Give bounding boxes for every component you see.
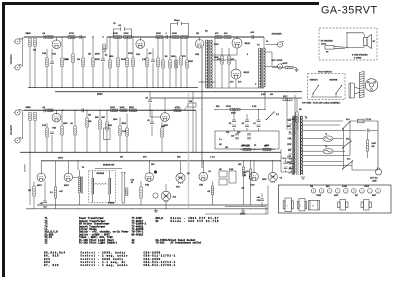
wire (67, 161, 69, 173)
svg-text:.02: .02 (118, 25, 122, 27)
wire bus 250V (55, 91, 302, 93)
node (61, 36, 62, 37)
wire (33, 196, 35, 209)
node (93, 87, 94, 88)
wire (180, 161, 182, 173)
wire T1 tap (289, 123, 293, 125)
wire (102, 62, 104, 88)
svg-text:250K: 250K (129, 107, 134, 109)
svg-text:T5: T5 (254, 145, 256, 147)
svg-text:470: 470 (231, 58, 234, 61)
svg-text:.02: .02 (70, 123, 74, 125)
wire supply (303, 145, 344, 147)
resistor R58 470 (228, 56, 230, 64)
wire (311, 96, 342, 98)
wire supply (303, 124, 341, 126)
svg-text:SPRING: SPRING (108, 203, 115, 205)
wire T1 tap (289, 133, 293, 135)
svg-text:42: 42 (132, 242, 135, 245)
tube V2B phase inverter (195, 40, 204, 49)
wire (221, 64, 223, 88)
wire transformer feed (214, 37, 216, 88)
resistor R10 100K (114, 36, 122, 39)
node (86, 110, 87, 111)
svg-text:1M: 1M (225, 147, 228, 149)
wire (333, 138, 343, 140)
transformer T4 core (81, 177, 82, 194)
fuse F1 (358, 119, 365, 123)
resistor R52 10K 1W (249, 169, 251, 179)
svg-text:C28: C28 (131, 180, 134, 182)
svg-text:1M: 1M (33, 50, 36, 52)
node (187, 87, 188, 88)
resistor R6 470K (68, 36, 75, 39)
node (132, 36, 133, 37)
svg-text:470K: 470K (283, 62, 288, 65)
node (34, 36, 35, 37)
node (162, 36, 163, 37)
svg-text:+25: +25 (207, 191, 210, 193)
node (135, 110, 136, 111)
capacitor C7 .1 (166, 35, 167, 39)
svg-text:1M: 1M (219, 169, 222, 171)
jack J3 reverb input 1 (14, 109, 22, 115)
wire (349, 121, 351, 156)
svg-text:C x: C x (219, 139, 222, 141)
node (126, 36, 127, 37)
resistor R16 220K (156, 36, 163, 39)
svg-text:100K: 100K (110, 107, 115, 109)
capacitor C30 (235, 134, 239, 135)
capacitor C3 (80, 35, 81, 39)
wire (296, 68, 298, 70)
svg-text:V: V (345, 191, 347, 193)
wire filter bottom (281, 171, 295, 173)
wire (149, 103, 151, 117)
svg-text:1.0: 1.0 (50, 192, 53, 194)
wire (369, 130, 378, 132)
wire tap (266, 51, 273, 53)
wire (146, 48, 148, 58)
wire (246, 114, 248, 120)
svg-text:470K: 470K (128, 52, 133, 55)
wire (92, 171, 94, 178)
jack J6 extension speaker (276, 63, 284, 69)
svg-text:C18: C18 (226, 132, 229, 134)
node (92, 36, 93, 37)
panel knob 5 (344, 189, 349, 194)
wire supply extra (330, 165, 352, 167)
wire (212, 195, 214, 206)
wire T1 tap (289, 138, 293, 140)
wire (285, 170, 287, 172)
wire (86, 127, 88, 152)
resistor R32 (61, 126, 63, 135)
wire plate lead V2A (139, 37, 141, 40)
wire jack3 to line (21, 109, 25, 112)
wire (132, 37, 134, 58)
resistor R55 1M (33, 186, 35, 196)
node (56, 36, 57, 37)
svg-text:.02: .02 (105, 55, 109, 57)
svg-text:27K 1/2W: 27K 1/2W (241, 146, 250, 148)
node (146, 36, 147, 37)
wire (291, 158, 293, 162)
node (203, 152, 204, 153)
node (169, 36, 170, 37)
node (121, 172, 122, 173)
wire supply (350, 120, 358, 122)
node (201, 81, 202, 82)
node (62, 110, 63, 111)
panel transformer T1 outline (283, 198, 293, 212)
panel transformer T2 outline (338, 200, 349, 211)
wire (46, 49, 48, 58)
node (72, 36, 73, 37)
svg-text:2.2M: 2.2M (261, 94, 266, 96)
resistor R35 68K (99, 120, 101, 129)
capacitor C15 box (188, 103, 196, 107)
svg-text:T4: T4 (82, 166, 85, 169)
node (46, 110, 47, 111)
svg-text:SPEAKER: SPEAKER (272, 33, 283, 36)
node (151, 110, 152, 111)
wire (352, 169, 378, 171)
wire (162, 68, 164, 88)
svg-text:Diode - 600 PIV D1-710: Diode - 600 PIV D1-710 (171, 220, 220, 223)
svg-text:I2: I2 (326, 146, 329, 148)
jack J5 speaker (276, 41, 284, 47)
node (34, 110, 35, 111)
wire (233, 110, 235, 121)
wire (117, 67, 119, 88)
wire (92, 67, 94, 88)
node (234, 109, 235, 110)
wire coupling vertical (192, 92, 194, 153)
svg-text:16: 16 (266, 41, 268, 43)
wire (367, 133, 369, 140)
svg-text:100K: 100K (372, 143, 377, 145)
svg-text:REVERB UNIT: REVERB UNIT (103, 165, 115, 167)
wire (263, 37, 265, 48)
ground (43, 207, 47, 209)
wire (92, 37, 94, 58)
node (29, 36, 30, 37)
svg-text:B: B (353, 191, 355, 193)
panel knob 1 (311, 189, 316, 194)
node (258, 109, 259, 110)
transformer T3 output primary (259, 48, 261, 88)
node (254, 149, 255, 150)
capacitor C12 (82, 108, 83, 112)
svg-text:100K: 100K (172, 33, 177, 35)
svg-text:470: 470 (215, 32, 219, 35)
wire (186, 37, 188, 60)
wire V5 cathode (236, 48, 238, 55)
svg-text:V1B: V1B (52, 128, 57, 130)
svg-text:1M: 1M (219, 144, 222, 146)
svg-text:D2: D2 (156, 220, 159, 223)
svg-text:1M: 1M (28, 190, 31, 192)
svg-text:T2: T2 (205, 31, 208, 33)
node (181, 87, 182, 88)
svg-text:V3B: V3B (145, 184, 149, 186)
wire (333, 150, 345, 152)
wire (72, 63, 74, 88)
terminal strip box A (219, 171, 227, 177)
node (180, 36, 181, 37)
node (346, 47, 347, 48)
wire (242, 209, 244, 211)
wire plate bus normal channel (24, 36, 86, 38)
node (192, 36, 193, 37)
svg-text:V8: V8 (280, 178, 283, 180)
svg-text:T: T (287, 206, 289, 208)
svg-text:4.7M: 4.7M (252, 105, 257, 108)
resistor R15 cathode (146, 58, 148, 67)
resistor R37 100K (111, 109, 118, 112)
switch S1B (342, 140, 352, 148)
wire (303, 150, 324, 152)
tube V5B (199, 172, 208, 181)
wire (280, 160, 282, 172)
svg-text:5V: 5V (289, 132, 292, 134)
wire (152, 48, 154, 60)
svg-text:8 OHM SPEAKER: 8 OHM SPEAKER (352, 54, 368, 57)
svg-text:SP: SP (373, 41, 376, 43)
capacitor C11 (50, 132, 54, 133)
resistor R5 plate (61, 58, 63, 67)
resistor R43 470K (174, 109, 181, 112)
wire (312, 94, 314, 98)
svg-text:4 OHMS: 4 OHMS (354, 56, 362, 59)
wire (367, 151, 369, 158)
resistor R45 1M (283, 98, 292, 101)
resistor R54 (140, 187, 142, 198)
wire (51, 65, 53, 88)
svg-text:1M: 1M (88, 54, 91, 56)
wire (109, 171, 111, 178)
capacitor C13 .05 (148, 100, 152, 101)
svg-text:2.2K: 2.2K (42, 125, 47, 127)
wire jack2 stub (21, 65, 23, 67)
wire T1 tap (289, 163, 293, 165)
wire T1 tap (289, 118, 293, 120)
resistor R9 (92, 58, 94, 67)
resistor R13 500K vol (126, 58, 128, 67)
wire (169, 68, 171, 88)
capacitor C24 plates (290, 167, 294, 168)
wire (55, 198, 57, 209)
panel knob 6 (352, 189, 357, 194)
svg-text:LOUD: LOUD (342, 186, 348, 188)
svg-text:6C4: 6C4 (173, 196, 178, 199)
node (99, 110, 100, 111)
svg-text:C25: C25 (257, 200, 260, 202)
wire V6 grid (235, 60, 237, 69)
capacitor C21 (257, 125, 261, 126)
jack J1 instrument input 1 (14, 38, 22, 44)
svg-text:68K: 68K (102, 117, 106, 119)
wire T1 tap (289, 153, 293, 155)
wire (29, 152, 31, 205)
wire T1 tap (289, 158, 293, 160)
wire supply (364, 120, 378, 122)
reverb spring (94, 183, 107, 184)
tube V4A 6EU7 second (64, 173, 72, 181)
wire (272, 160, 274, 172)
svg-text:470K: 470K (189, 60, 194, 63)
svg-text:68K: 68K (264, 146, 268, 148)
wire (184, 105, 188, 110)
node (149, 110, 150, 111)
svg-text:TS-303: TS-303 (156, 242, 165, 245)
capacitor C1 .02 (44, 35, 45, 39)
wire (258, 128, 260, 131)
panel transformer T5 outline (308, 200, 319, 210)
terminal strip box B (219, 179, 227, 185)
switch S3 vibrato footswitch (312, 85, 319, 94)
tube V1B 6EU7 (52, 113, 61, 122)
panel knob 4 (335, 189, 340, 194)
wire (169, 37, 171, 60)
panel knob 8 (368, 189, 373, 194)
wire (61, 37, 63, 58)
svg-text:C19: C19 (237, 132, 240, 134)
svg-text:250K: 250K (122, 123, 127, 125)
svg-text:1M: 1M (120, 157, 123, 159)
svg-text:L: L (369, 191, 370, 193)
svg-text:470K: 470K (214, 43, 219, 46)
node (250, 208, 251, 209)
node (272, 152, 273, 153)
svg-text:1M: 1M (270, 94, 273, 96)
resistor R3 (47, 36, 53, 39)
wire (296, 98, 298, 112)
resistor R19 (180, 56, 182, 65)
wire (180, 65, 182, 88)
wire tap drop (271, 52, 273, 67)
svg-text:S1c: S1c (347, 159, 351, 161)
wire (51, 135, 53, 152)
wire (351, 162, 353, 171)
wire bus ground return (28, 87, 198, 89)
wire jack2 riser (22, 38, 24, 67)
node (46, 36, 47, 37)
connector plug (speaker cable) (325, 46, 345, 50)
svg-text:1M: 1M (89, 121, 92, 123)
svg-text:FOOT SWITCH: FOOT SWITCH (318, 72, 333, 74)
svg-text:6BQ5: 6BQ5 (244, 72, 250, 74)
svg-text:1M: 1M (77, 59, 80, 61)
node (29, 110, 30, 111)
svg-text:JACK: JACK (321, 42, 327, 45)
wire (272, 67, 285, 69)
svg-text:100K: 100K (120, 107, 125, 109)
node (133, 87, 134, 88)
reverb tank enclosure (dashed) (89, 171, 116, 203)
panel knob 9 (376, 189, 381, 194)
svg-text:117V AC: 117V AC (370, 176, 378, 179)
wire feedback (198, 81, 215, 83)
resistor R11 470K (124, 36, 132, 39)
wire (152, 63, 154, 88)
resistor R30 (47, 109, 53, 112)
node (265, 109, 266, 110)
connector plug face view (365, 79, 378, 92)
wire (243, 176, 245, 205)
svg-text:100K: 100K (113, 33, 118, 35)
capacitor C16 (232, 120, 236, 121)
svg-text:1M: 1M (196, 33, 199, 35)
transformer T2 secondary winding (210, 40, 212, 88)
resistor R57 470 (221, 56, 223, 64)
node (151, 36, 152, 37)
node (106, 110, 107, 111)
node (176, 87, 177, 88)
capacitor C22 line filter (368, 129, 369, 133)
node (51, 110, 52, 111)
svg-text:LINE: LINE (372, 180, 377, 182)
resistor R49 surge (366, 140, 368, 151)
resistor R2 1M (34, 39, 36, 47)
svg-text:50V: 50V (288, 150, 292, 152)
svg-text:6EU7: 6EU7 (64, 185, 70, 187)
wire (82, 67, 84, 88)
transformer T1 secondary bar (300, 116, 302, 175)
svg-text:220K: 220K (95, 59, 100, 61)
resistor R24 (186, 60, 188, 68)
svg-text:1M: 1M (187, 173, 190, 175)
wire supply (303, 130, 367, 132)
panel knob 2 (319, 189, 324, 194)
resistor R56 (54, 187, 56, 198)
wire bottom bus 2 (26, 208, 268, 210)
wire (221, 48, 223, 56)
wire (228, 48, 230, 56)
svg-text:NORMAL: NORMAL (10, 53, 13, 64)
resistor R42 (161, 128, 163, 137)
wire (157, 37, 159, 58)
wire V6 cathode (235, 79, 237, 88)
node (165, 91, 166, 92)
wire tank output pair 2 (124, 173, 126, 204)
jack J4 reverb input 2 (14, 137, 22, 143)
svg-text:INT: INT (355, 195, 359, 197)
svg-text:250K: 250K (95, 54, 100, 56)
wire (33, 181, 35, 186)
wire (79, 194, 81, 206)
wire (296, 122, 298, 130)
node (126, 110, 127, 111)
svg-text:2.2M: 2.2M (229, 169, 234, 171)
svg-text:1M: 1M (283, 96, 286, 98)
resistor R50 27K (243, 148, 251, 151)
capacitor C5 feedback loop (114, 29, 132, 37)
wire T1 tap (289, 128, 293, 130)
svg-text:10K: 10K (238, 164, 242, 166)
panel choke L1 outline (297, 199, 306, 211)
wire tremolo vertical 2 (286, 95, 288, 130)
potentiometer box R9 (104, 128, 111, 140)
node (35, 87, 36, 88)
svg-text:.02: .02 (42, 33, 46, 35)
resistor R44 220K (230, 108, 240, 111)
panel transformer T3 outline (361, 200, 372, 211)
node (102, 36, 103, 37)
svg-text:470K: 470K (69, 32, 74, 35)
node (175, 36, 176, 37)
